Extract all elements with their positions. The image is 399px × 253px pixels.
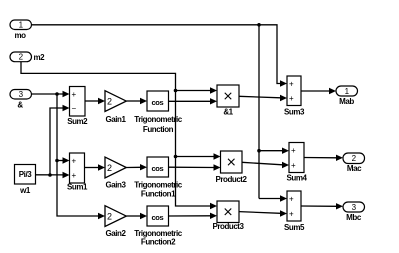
svg-text:mo: mo	[14, 31, 26, 40]
wire Gain1 to cos	[126, 98, 147, 104]
svg-text:+: +	[289, 195, 294, 204]
svg-text:−: −	[72, 104, 77, 113]
wire Product2 to Sum4	[242, 162, 289, 168]
wire segment mo bus vertical	[258, 25, 260, 199]
wire segment port3 to Sum2 plus input	[32, 93, 64, 95]
junction m2 bus to Product2	[174, 155, 178, 159]
sum Sum1	[67, 153, 88, 192]
gain Gain1	[105, 91, 126, 124]
svg-text:Gain1: Gain1	[106, 115, 127, 124]
constant Pi/3	[15, 165, 36, 196]
svg-text:2: 2	[107, 163, 112, 173]
svg-text:cos: cos	[152, 98, 164, 107]
wire port2 m2 bus	[21, 62, 221, 210]
svg-text:2: 2	[107, 212, 112, 222]
trig block Trigonometric Function1	[134, 157, 182, 199]
svg-text:&1: &1	[223, 108, 233, 117]
product Product3	[212, 201, 244, 231]
gain Gain3	[105, 157, 126, 189]
svg-text:2: 2	[352, 154, 357, 163]
sum Sum2	[67, 87, 88, 127]
svg-text:1: 1	[345, 87, 350, 96]
svg-text:Trigonometric: Trigonometric	[134, 115, 182, 124]
wire port1 to Sum3 and mo bus	[32, 23, 290, 202]
outport 2 Mac	[343, 153, 365, 173]
svg-text:+: +	[289, 80, 294, 89]
svg-text:2: 2	[19, 53, 24, 62]
wire segment branch to Sum5 top input	[259, 198, 281, 200]
svg-text:Mbc: Mbc	[346, 213, 362, 222]
svg-text:Function2: Function2	[141, 238, 176, 247]
junction w1 line	[48, 173, 52, 177]
svg-text:Trigonometric: Trigonometric	[134, 181, 182, 190]
outport 1 Mab	[336, 86, 358, 106]
svg-text:&: &	[17, 101, 23, 110]
wire Sum1 to Gain3	[85, 164, 106, 170]
junction mo bus top	[257, 23, 261, 27]
svg-text:Sum5: Sum5	[284, 223, 305, 232]
wire segment branch to Product2 top input	[176, 156, 215, 158]
product &1	[217, 85, 239, 117]
svg-text:w1: w1	[19, 186, 31, 195]
inport 1	[10, 20, 32, 40]
wire Pi/3 to Sum1 and Sum2	[36, 105, 70, 178]
svg-text:3: 3	[352, 203, 357, 212]
trig block Trigonometric Function	[134, 91, 182, 134]
wire segment port2 m2 bus to Product3 top input	[21, 62, 211, 206]
svg-text:cos: cos	[152, 213, 164, 222]
gain Gain2	[105, 206, 126, 238]
inport 3	[10, 90, 32, 110]
svg-text:Sum1: Sum1	[67, 183, 88, 192]
svg-text:Function: Function	[143, 125, 174, 134]
wire &1 to Sum3	[239, 95, 287, 101]
wire segment port1 to Sum3 top input	[32, 25, 281, 84]
svg-text:Sum4: Sum4	[287, 174, 308, 183]
wire segment branch to product &1 top input	[176, 90, 211, 92]
wire Sum5 to outport Mbc	[301, 203, 343, 209]
svg-text:Mab: Mab	[339, 97, 354, 106]
svg-text:1: 1	[19, 21, 24, 30]
svg-text:cos: cos	[152, 164, 164, 173]
sum Sum3	[284, 76, 305, 117]
svg-text:Product2: Product2	[215, 175, 247, 184]
svg-text:m2: m2	[34, 53, 46, 62]
svg-text:+: +	[289, 94, 294, 103]
svg-text:Product3: Product3	[212, 222, 244, 231]
svg-text:+: +	[72, 157, 77, 166]
wire segment branch to Sum4 top input	[259, 150, 283, 152]
wire Gain3 to cos1	[126, 164, 147, 170]
junction mo bus to Sum4	[257, 149, 261, 153]
junction port3 bus	[55, 92, 59, 96]
wire segment branch up to Sum2 minus input	[50, 108, 63, 175]
wire cos to Product &1	[169, 98, 218, 104]
svg-text:+: +	[291, 146, 296, 155]
svg-text:Sum2: Sum2	[67, 117, 88, 126]
svg-text:3: 3	[19, 90, 24, 99]
product Product2	[215, 151, 247, 184]
sum Sum4	[287, 143, 308, 183]
svg-text:Function1: Function1	[141, 190, 176, 199]
svg-text:Pi/3: Pi/3	[19, 170, 32, 179]
wire segment Pi/3 to Sum1 second input	[36, 174, 64, 176]
wire segment branch to Sum1 top input	[57, 160, 63, 162]
svg-text:2: 2	[107, 97, 112, 107]
wire Product3 to Sum5	[239, 210, 287, 216]
wire Gain2 to cos2	[126, 213, 147, 219]
wire port3 to Sum2 Sum1 Gain2	[32, 91, 106, 219]
outport 3 Mbc	[343, 202, 365, 222]
sum Sum5	[284, 191, 305, 232]
wire cos1 to Product2	[169, 164, 221, 170]
svg-text:Sum3: Sum3	[284, 108, 305, 117]
wire Sum2 to Gain1	[85, 98, 105, 104]
junction m2 bus to product &1	[174, 89, 178, 93]
wire Sum4 to outport Mac	[304, 155, 343, 161]
svg-text:Mac: Mac	[347, 164, 362, 173]
svg-text:+: +	[72, 90, 77, 99]
junction port3 bus to Sum1	[55, 159, 59, 163]
svg-text:+: +	[289, 210, 294, 219]
svg-text:Gain3: Gain3	[106, 181, 127, 190]
wire segment port3 bus down to Gain2	[57, 94, 99, 216]
wire cos2 to Product3	[169, 213, 218, 219]
svg-text:+: +	[291, 161, 296, 170]
inport 2	[10, 52, 45, 62]
svg-text:+: +	[72, 171, 77, 180]
svg-text:Gain2: Gain2	[106, 229, 127, 238]
wire Sum3 to outport Mab	[301, 88, 336, 94]
trig block Trigonometric Function2	[134, 206, 182, 247]
